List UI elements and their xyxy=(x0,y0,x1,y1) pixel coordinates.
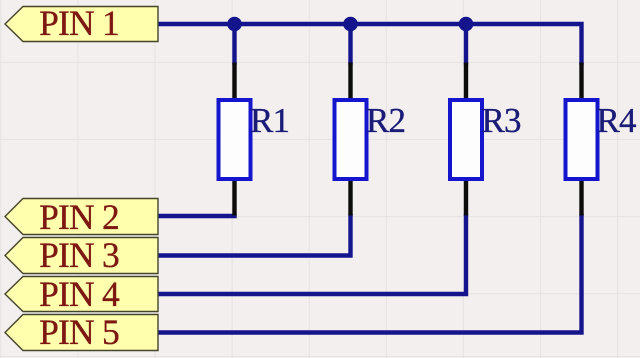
resistor R2 body xyxy=(335,100,367,179)
wire: bus stub down to R3 top pin xyxy=(464,24,468,65)
resistor R2 bottom pin xyxy=(348,178,352,216)
svg-text:PIN 4: PIN 4 xyxy=(39,274,120,314)
resistor R3 bottom pin xyxy=(464,178,468,216)
resistor R4 top pin xyxy=(579,63,583,102)
label PIN 2 xyxy=(39,197,119,237)
resistor R3 top pin xyxy=(464,63,468,102)
label PIN 5 xyxy=(39,312,119,352)
label PIN 1 xyxy=(39,3,119,43)
resistor R1 body xyxy=(219,100,251,179)
wire: bus stub down to R1 top pin xyxy=(232,24,236,65)
resistor R1 top pin xyxy=(232,63,236,102)
junction at R1 top xyxy=(227,17,242,32)
junction at R3 top xyxy=(459,17,474,32)
label PIN 3 xyxy=(39,235,119,275)
wire: top bus from PIN 1 to R4 drop xyxy=(158,24,582,65)
svg-text:R1: R1 xyxy=(250,101,289,140)
resistor R3 body xyxy=(450,100,482,179)
wire: bus stub down to R2 top pin xyxy=(348,24,352,65)
svg-text:R3: R3 xyxy=(482,101,522,140)
resistor R4 bottom pin xyxy=(579,178,583,216)
junction at R2 top xyxy=(343,17,358,32)
resistor R2 top pin xyxy=(348,63,352,102)
label R3 xyxy=(482,101,522,140)
port flag PIN 5 xyxy=(5,315,158,351)
port flag PIN 2 xyxy=(5,199,158,235)
resistor R4 body xyxy=(566,100,598,179)
resistor R1 bottom pin xyxy=(232,178,236,216)
port flag PIN 4 xyxy=(5,277,158,312)
wire: R1 bottom to PIN 2 xyxy=(158,214,235,216)
svg-text:PIN 3: PIN 3 xyxy=(39,235,119,275)
port flag PIN 1 xyxy=(5,7,158,42)
svg-text:PIN 5: PIN 5 xyxy=(39,312,119,352)
svg-text:PIN 2: PIN 2 xyxy=(39,197,119,237)
svg-text:R4: R4 xyxy=(597,101,637,140)
label R1 xyxy=(250,101,289,140)
wire: R2 bottom to PIN 3 xyxy=(158,214,351,256)
wire: R3 bottom to PIN 4 xyxy=(158,214,466,294)
label R2 xyxy=(366,101,405,140)
svg-text:PIN 1: PIN 1 xyxy=(39,3,119,43)
svg-text:R2: R2 xyxy=(366,101,405,140)
wire: R4 bottom to PIN 5 xyxy=(158,214,582,333)
label R4 xyxy=(597,101,637,140)
port flag PIN 3 xyxy=(5,238,158,274)
label PIN 4 xyxy=(39,274,120,314)
